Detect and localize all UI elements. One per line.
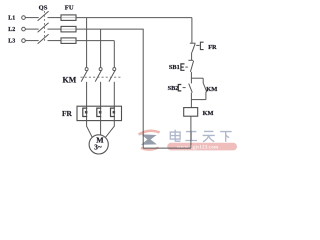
wire FR contact to SB1: [191, 52, 193, 60]
wire SB1 to junction A: [190, 72, 192, 78]
wire switch to fuse row1: [48, 17, 62, 19]
svg-text:SB1: SB1: [169, 64, 180, 71]
svg-text:L1: L1: [8, 16, 15, 22]
svg-text:KM: KM: [206, 86, 217, 93]
contactor KM auxiliary contact (NO): [203, 78, 217, 99]
svg-text:L2: L2: [8, 27, 15, 33]
node L1 terminal: [8, 16, 25, 22]
thermal relay FR heater 2: [97, 106, 102, 120]
wire control branch vertical from L1: [191, 18, 193, 44]
wire contact3 to FR box: [113, 82, 115, 106]
button SB2 (NO start): [168, 78, 193, 99]
wire drop phase2: [100, 29, 102, 67]
wire L2 to switch: [25, 28, 38, 30]
watermark banner: [167, 143, 237, 151]
switch QS pole 1 blade: [38, 11, 49, 20]
svg-text:SB2: SB2: [168, 85, 179, 92]
thermal contact FR (NC): [190, 42, 217, 52]
thermal relay FR heater 3: [111, 106, 116, 120]
wire FR to motor middle: [100, 121, 102, 135]
wire L2 bus to control return corner: [76, 28, 144, 30]
wire drop phase1: [86, 18, 88, 68]
node junction B horizontal: [191, 99, 206, 101]
switch QS pole 2 blade: [38, 23, 49, 33]
wire contact1 to FR box: [86, 82, 88, 106]
node junction A horizontal: [191, 77, 203, 79]
wire switch to fuse row3: [48, 40, 62, 42]
wire junction B to coil: [190, 100, 192, 108]
contactor KM main contact 1: [81, 68, 88, 82]
svg-text:FR: FR: [208, 44, 217, 51]
contactor KM main contact 2: [95, 68, 102, 82]
fuse FU2: [61, 26, 76, 32]
contactor KM linkage dashed: [81, 76, 121, 78]
svg-text:L3: L3: [8, 39, 15, 45]
switch QS linkage dashed: [43, 11, 45, 43]
svg-text:KM: KM: [203, 110, 214, 117]
watermark logo: [139, 131, 160, 150]
wire return vertical to L2: [142, 29, 144, 148]
fuse FU1: [61, 15, 76, 21]
svg-text:3~: 3~: [94, 143, 102, 151]
thermal relay FR heater 1: [83, 106, 88, 120]
wire FR to motor left: [87, 121, 93, 138]
switch QS pole 3 blade: [38, 34, 49, 44]
thermal relay FR box: [77, 106, 122, 120]
contactor KM main contact 3: [109, 68, 116, 82]
wire L3 bus: [76, 40, 114, 42]
wire L1 bus to control corner: [76, 17, 192, 19]
svg-text:QS: QS: [39, 4, 48, 11]
svg-text:FU: FU: [65, 4, 74, 11]
wire L1 to switch: [25, 17, 38, 19]
wire drop phase3: [113, 41, 115, 68]
coil KM: [184, 108, 214, 117]
svg-text:KM: KM: [63, 75, 77, 84]
wire FR to motor right: [105, 121, 114, 138]
watermark text: [170, 130, 231, 142]
node L2 terminal: [8, 27, 25, 33]
fuse FU3: [61, 38, 76, 44]
wire L3 to switch: [25, 40, 38, 42]
wire contact2 to FR box: [100, 82, 102, 106]
wire switch to fuse row2: [48, 28, 62, 30]
node L3 terminal: [8, 39, 25, 45]
svg-text:FR: FR: [62, 109, 73, 118]
wire bottom return horizontal: [143, 147, 191, 149]
wire coil to bottom corner: [190, 116, 192, 148]
button SB1 (NC stop): [169, 60, 194, 72]
motor M: [89, 135, 108, 154]
